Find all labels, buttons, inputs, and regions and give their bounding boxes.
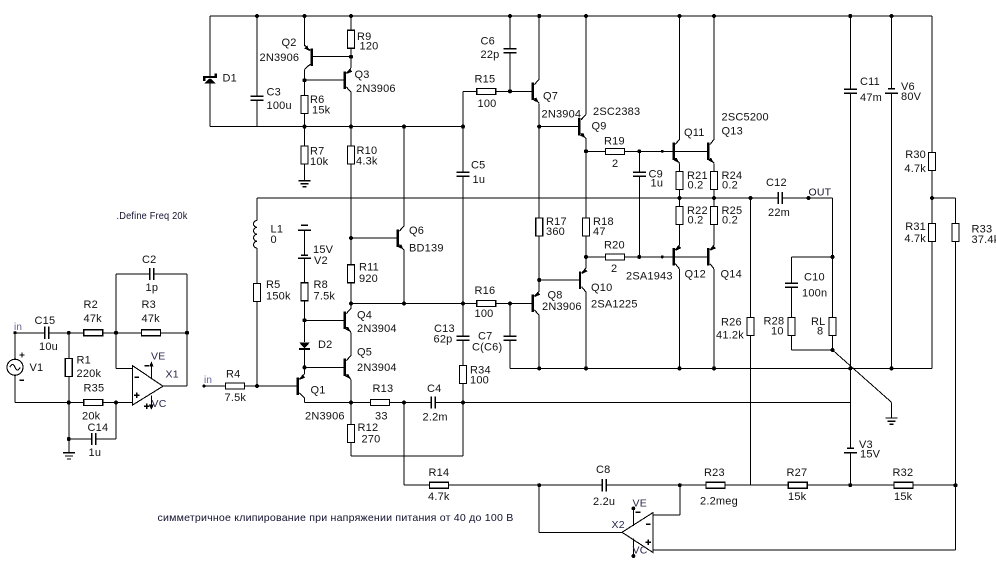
label X2 plus input sign <box>645 540 650 545</box>
node R32 / R33 / X2 plus riser <box>954 483 958 487</box>
resistor R33 <box>955 198 957 224</box>
wire Q3 collector down <box>350 92 352 126</box>
svg-text:0.2: 0.2 <box>688 180 704 192</box>
wire in to C15 <box>15 332 45 334</box>
node Q2 collector / Q3 base / R6 <box>303 78 307 82</box>
wire X2 output <box>539 531 622 533</box>
label X1 minus input sign <box>134 376 139 378</box>
wire R32 to corner <box>913 484 956 486</box>
node V6 / ground rail <box>890 366 894 370</box>
transistor Q9 (2SC2383) <box>578 118 580 136</box>
resistor R25 <box>713 198 715 207</box>
svg-text:D1: D1 <box>223 73 237 85</box>
svg-text:47k: 47k <box>142 313 161 325</box>
svg-text:R4: R4 <box>226 369 240 381</box>
node R30-R31 / R33 <box>930 196 934 200</box>
resistor R23 <box>706 482 725 488</box>
resistor R20 <box>606 254 625 260</box>
resistor R11 <box>348 265 355 283</box>
node R34 / R12 riser <box>461 401 465 405</box>
capacitor C6 <box>509 16 511 49</box>
wire Q1 collector down <box>304 398 306 402</box>
wire diagonal to ground <box>833 350 892 402</box>
svg-text:62p: 62p <box>434 334 453 346</box>
wire C2 right riser <box>186 274 188 333</box>
resistor R24 <box>711 172 718 190</box>
label V1 plus sign <box>19 352 24 357</box>
wire Q11 collector up to top rail <box>679 16 681 139</box>
wire X2 plus input <box>653 549 956 551</box>
svg-text:R26: R26 <box>721 317 742 329</box>
svg-text:симметричное клипирование при: симметричное клипирование при напряжении… <box>158 512 514 524</box>
label X1 VE minus sign <box>144 365 149 367</box>
svg-text:R2: R2 <box>84 299 98 311</box>
capacitor C14 <box>92 433 96 445</box>
node R18 / R20 / Q10 emitter <box>584 255 588 259</box>
svg-text:R31: R31 <box>905 221 926 233</box>
wire in2 to R4 <box>204 385 226 387</box>
svg-text:2SC5200: 2SC5200 <box>722 112 769 124</box>
svg-text:4.3k: 4.3k <box>356 156 378 168</box>
resistor R28 <box>788 317 795 335</box>
resistor R16 <box>463 303 477 305</box>
node Q6 base junction <box>349 236 353 240</box>
node C6 / R15-Q7 wire <box>508 89 512 93</box>
wire X2 output riser <box>538 485 540 532</box>
wire Q6 collector up to rail A <box>403 127 405 226</box>
node rail A / R6-R7 <box>303 125 307 129</box>
svg-text:120: 120 <box>360 41 379 53</box>
svg-text:2.2u: 2.2u <box>593 496 615 508</box>
svg-text:920: 920 <box>359 273 378 285</box>
svg-text:C11: C11 <box>860 76 880 88</box>
svg-text:22p: 22p <box>481 49 500 61</box>
svg-text:VE: VE <box>151 351 165 363</box>
pin X1 VC <box>150 396 152 409</box>
wire X1 minus input <box>115 333 117 369</box>
transistor Q11 <box>672 143 674 161</box>
svg-text:15k: 15k <box>788 491 807 503</box>
node base branch Q12/Q14 <box>661 255 664 258</box>
svg-text:2SA1943: 2SA1943 <box>626 271 673 283</box>
resistor R35 <box>84 400 103 406</box>
wire R20 left lead <box>586 256 606 258</box>
wire R28 to RL bottom <box>792 349 833 351</box>
svg-text:X1: X1 <box>166 369 179 381</box>
svg-text:Q1: Q1 <box>311 385 326 397</box>
op-amp X2 <box>622 513 653 553</box>
transistor Q1 (2N3906) <box>296 377 298 395</box>
svg-text:R15: R15 <box>475 74 496 86</box>
svg-text:15k: 15k <box>312 105 331 117</box>
node wire y303 / Q6 emitter <box>402 302 406 306</box>
svg-text:R12: R12 <box>358 422 379 434</box>
wire C2 left lead <box>116 273 150 275</box>
wire R4 to Q1 base <box>245 385 297 387</box>
wire C15 to R2 <box>49 332 84 334</box>
node C14 left <box>67 437 71 441</box>
wire Q13 collector up to top rail <box>713 16 715 139</box>
wire top supply rail <box>210 15 932 17</box>
resistor R17 <box>538 127 540 218</box>
wire Q4 emitter to Q5 collector <box>350 332 352 355</box>
svg-text:Q9: Q9 <box>592 121 607 133</box>
inductor L1 <box>256 198 258 221</box>
voltage source V2 15V <box>298 225 311 230</box>
svg-text:Q12: Q12 <box>685 269 706 281</box>
label X1 VC plus sign <box>144 404 149 409</box>
svg-text:C3: C3 <box>267 87 281 99</box>
wire Q10 collector down to ground rail <box>585 292 587 368</box>
svg-text:100n: 100n <box>802 288 827 300</box>
wire Q9 emitter down <box>585 139 587 152</box>
transistor Q4 (2N3904) <box>344 312 346 330</box>
wire Q2 emitter riser <box>304 16 306 45</box>
node Q12 collector / ground rail <box>678 366 682 370</box>
wire Q11 emitter to R21 <box>679 163 681 171</box>
transistor Q8 (2N3906) <box>532 294 534 312</box>
svg-text:in: in <box>14 322 22 333</box>
node R8 / Q4 base / D2 <box>303 318 307 322</box>
resistor R8 <box>301 283 308 301</box>
wire R20 to Q12/Q14 bases <box>625 256 708 258</box>
svg-text:15k: 15k <box>894 491 913 503</box>
wire Q12 collector down to ground rail <box>679 269 681 369</box>
wire R12 bottom link <box>351 455 463 457</box>
wire ground rail <box>510 367 932 369</box>
svg-text:.Define Freq 20k: .Define Freq 20k <box>117 210 188 222</box>
svg-text:R11: R11 <box>359 262 379 274</box>
transistor Q14 <box>707 248 709 266</box>
capacitor C12 <box>778 192 782 204</box>
svg-text:100u: 100u <box>267 100 292 112</box>
svg-text:Q14: Q14 <box>721 269 742 281</box>
svg-text:47k: 47k <box>84 313 103 325</box>
wire C14 left riser and ground <box>68 403 70 440</box>
svg-text:R27: R27 <box>787 467 808 479</box>
svg-text:7.5k: 7.5k <box>314 291 336 303</box>
wire C14 left lead <box>69 438 92 440</box>
wire Q5 emitter down <box>350 379 352 402</box>
wire X2 minus input <box>653 514 680 516</box>
node C5 / R16 / C13 branch <box>461 302 465 306</box>
resistor R7 <box>304 127 306 146</box>
wire Q3 emitter up <box>350 57 352 68</box>
svg-text:2N3906: 2N3906 <box>542 301 582 313</box>
wire C4 to feedback riser <box>435 402 850 404</box>
ground below R7 <box>299 181 311 187</box>
wire Q8 emitter up <box>538 280 540 291</box>
voltage source V1 <box>14 333 16 360</box>
wire C8 to R23 <box>606 484 706 486</box>
svg-text:Q11: Q11 <box>684 127 705 139</box>
wire R14 to C8 <box>449 484 603 486</box>
node C9 bottom <box>637 255 641 259</box>
node Q10 collector / ground rail <box>584 366 588 370</box>
wire Q6 emitter node to R16 node <box>351 303 463 305</box>
node V3 / bottom rail <box>848 483 852 487</box>
svg-text:R8: R8 <box>314 279 328 291</box>
wire Q7 collector up to top rail <box>538 16 540 79</box>
node R11 / Q4 collector <box>349 302 353 306</box>
svg-text:R19: R19 <box>604 136 625 148</box>
resistor R1 <box>68 333 70 359</box>
svg-text:BD139: BD139 <box>409 243 444 255</box>
resistor R9 <box>350 16 352 30</box>
wire Q8 base wire from R16 <box>496 303 532 305</box>
svg-text:33: 33 <box>375 411 388 423</box>
wire C12 right corner down <box>832 198 834 257</box>
svg-text:1p: 1p <box>146 282 159 294</box>
resistor R6 <box>304 80 306 95</box>
pin X1 VE <box>150 363 152 379</box>
svg-text:C15: C15 <box>35 315 56 327</box>
svg-text:VE: VE <box>633 498 647 510</box>
svg-text:47m: 47m <box>860 92 882 104</box>
resistor R4 <box>226 383 245 389</box>
wire Q6 emitter down <box>403 250 405 304</box>
svg-text:Q13: Q13 <box>722 126 743 138</box>
capacitor C3 <box>256 16 258 96</box>
wire C10 top link <box>792 256 833 258</box>
node rail A / Q3 collector-R10 <box>349 125 353 129</box>
wire Q3 base <box>305 79 344 81</box>
svg-text:1u: 1u <box>651 178 664 190</box>
wire rail B to Q9 base <box>539 126 578 128</box>
wire Q1 emitter up <box>304 367 306 374</box>
node OUT <box>807 196 811 200</box>
label X2 minus input sign <box>646 523 651 525</box>
resistor R19 <box>606 148 625 154</box>
voltage source V3 15V <box>849 403 851 449</box>
svg-text:C4: C4 <box>427 383 441 395</box>
svg-text:Q3: Q3 <box>355 69 370 81</box>
capacitor C5 <box>462 127 464 173</box>
svg-text:2N3904: 2N3904 <box>357 362 397 374</box>
wire Q13 emitter to R24 <box>713 163 715 171</box>
svg-text:2SC2383: 2SC2383 <box>593 106 640 118</box>
svg-text:0.2: 0.2 <box>722 215 738 227</box>
svg-text:0.2: 0.2 <box>722 180 738 192</box>
resistor RL <box>832 257 834 318</box>
resistor R27 <box>788 482 807 488</box>
svg-text:C12: C12 <box>766 177 787 189</box>
svg-text:Q5: Q5 <box>357 347 372 359</box>
wire V1 to R35 <box>15 402 84 404</box>
svg-text:Q7: Q7 <box>543 91 558 103</box>
resistor R32 <box>894 482 913 488</box>
resistor R31 <box>931 198 933 224</box>
transistor Q10 (2SA1225) <box>579 271 581 289</box>
svg-text:2N3904: 2N3904 <box>542 109 582 121</box>
node R5 / Q1 base wire <box>255 384 259 388</box>
svg-text:1u: 1u <box>89 447 102 459</box>
transistor Q2 (2N3906) <box>310 49 312 67</box>
svg-text:C10: C10 <box>804 272 825 284</box>
svg-text:2N3906: 2N3906 <box>356 83 396 95</box>
svg-text:C2: C2 <box>142 254 156 266</box>
svg-text:C6: C6 <box>481 36 495 48</box>
wire output rail <box>257 197 778 199</box>
svg-text:2.2meg: 2.2meg <box>700 496 738 508</box>
node in2 terminal <box>202 385 205 388</box>
node Q5 emitter / R12 <box>349 401 353 405</box>
wire R23 to R27 <box>726 484 789 486</box>
svg-text:80V: 80V <box>901 91 922 103</box>
resistor R22 <box>679 198 681 207</box>
svg-text:100: 100 <box>478 98 497 110</box>
svg-text:2: 2 <box>611 263 617 275</box>
svg-text:270: 270 <box>362 434 381 446</box>
capacitor C15 <box>45 327 49 339</box>
wire R14 left lead <box>404 484 430 486</box>
capacitor C7 <box>509 304 511 337</box>
wire R27 to R32 <box>807 484 894 486</box>
pin X2 VE <box>632 508 634 526</box>
svg-text:2SA1225: 2SA1225 <box>591 299 638 311</box>
resistor R30 <box>929 153 936 171</box>
wire R3 to output node <box>161 332 188 334</box>
svg-text:R13: R13 <box>373 383 394 395</box>
svg-text:R16: R16 <box>475 285 496 297</box>
svg-text:Q8: Q8 <box>548 290 563 302</box>
capacitor C4 <box>431 396 435 408</box>
node R21-R22 / output rail <box>678 196 682 200</box>
node top rail / C3 <box>255 14 259 18</box>
resistor R14 <box>430 482 449 488</box>
label V1 minus sign <box>20 379 25 381</box>
wire Q4 base <box>305 319 344 321</box>
capacitor C13 <box>462 304 464 337</box>
svg-text:20k: 20k <box>82 411 101 423</box>
node R26 / output rail <box>749 196 753 200</box>
transistor Q6 (BD139) <box>396 229 398 247</box>
wire Q10 base <box>539 279 579 281</box>
node R24-R25 / output rail <box>712 196 716 200</box>
resistor R13 <box>371 400 390 406</box>
svg-text:R14: R14 <box>429 467 450 479</box>
wire R15 left lead and corner <box>463 90 477 92</box>
svg-text:15V: 15V <box>860 449 881 461</box>
transistor Q13 (2SC5200) <box>707 143 709 161</box>
ground below C14 <box>63 453 75 459</box>
svg-text:4.7k: 4.7k <box>428 491 450 503</box>
svg-text:0: 0 <box>271 234 277 246</box>
node Q14 collector / ground rail <box>712 366 716 370</box>
svg-text:2N3906: 2N3906 <box>260 52 300 64</box>
svg-text:10: 10 <box>771 326 784 338</box>
svg-text:37.4k: 37.4k <box>972 234 996 246</box>
wire Q14 collector down to ground rail <box>713 269 715 369</box>
capacitor C2 <box>150 268 154 280</box>
node Q9 emitter / R19 <box>584 149 588 153</box>
wire Q8 collector down to ground rail <box>538 315 540 368</box>
node C4 / R14 riser <box>402 401 406 405</box>
wire C14 right lead <box>96 438 117 440</box>
wire Q7 emitter down <box>538 103 540 126</box>
node C9 top <box>637 149 641 153</box>
node base branch Q11/Q13 <box>661 150 664 153</box>
svg-text:100: 100 <box>470 375 489 387</box>
svg-text:7.5k: 7.5k <box>225 392 247 404</box>
transistor Q12 (2SA1943) <box>672 248 674 266</box>
svg-text:10u: 10u <box>39 341 58 353</box>
svg-text:C14: C14 <box>88 422 109 434</box>
wire R35 to X1 plus input <box>103 402 133 404</box>
svg-text:1u: 1u <box>473 174 486 186</box>
svg-text:4.7k: 4.7k <box>904 163 926 175</box>
wire riser to R34 node <box>462 403 464 456</box>
capacitor C10 <box>791 257 793 283</box>
wire C2 right lead <box>154 273 188 275</box>
label X1 plus input sign <box>134 393 139 398</box>
node C10/RL top junction <box>831 255 835 259</box>
svg-text:D2: D2 <box>318 339 332 351</box>
resistor R21 <box>676 172 683 190</box>
capacitor C11 <box>849 16 851 89</box>
resistor R15 <box>477 88 496 94</box>
svg-text:C5: C5 <box>471 160 485 172</box>
node R35 / C14 riser <box>114 401 118 405</box>
wire X1 output <box>163 385 187 387</box>
node D2 / Q5 base / Q1 emitter <box>303 365 307 369</box>
capacitor C9 <box>638 151 640 172</box>
resistor R34 <box>462 340 464 366</box>
node Q7 emitter / Q9 base rail <box>537 125 541 129</box>
svg-text:2N3906: 2N3906 <box>305 411 345 423</box>
svg-text:100: 100 <box>475 308 494 320</box>
svg-text:R30: R30 <box>905 149 926 161</box>
svg-text:R20: R20 <box>604 240 625 252</box>
transistor Q7 (2N3904) <box>532 83 534 101</box>
node X2 minus riser <box>678 483 682 487</box>
wire X2 plus riser <box>955 485 957 550</box>
wire Q9 collector up to top rail <box>585 16 587 115</box>
svg-text:2N3904: 2N3904 <box>357 323 397 335</box>
capacitor C8 <box>602 479 606 491</box>
svg-text:X2: X2 <box>612 519 625 531</box>
node R17 / Q8 emitter / Q10 base <box>537 278 541 282</box>
transistor Q3 (2N3906) <box>344 71 346 89</box>
svg-text:V2: V2 <box>314 255 328 267</box>
wire C14 right riser <box>115 403 117 440</box>
node rail A / Q6 collector <box>402 125 406 129</box>
wire right supply drop to R30 <box>931 16 933 153</box>
node in terminal <box>13 331 16 334</box>
svg-text:4.7k: 4.7k <box>904 233 926 245</box>
wire C2 left riser <box>115 274 117 333</box>
svg-text:in: in <box>204 375 212 386</box>
wire R33 top link <box>932 197 956 199</box>
resistor R2 <box>84 330 103 336</box>
svg-text:Q6: Q6 <box>409 225 424 237</box>
diode D2 <box>304 320 306 342</box>
svg-text:0.2: 0.2 <box>688 215 704 227</box>
wire Q1 collector to R13 and C4 rail <box>305 402 371 404</box>
svg-text:10k: 10k <box>310 156 329 168</box>
resistor R18 <box>585 151 587 218</box>
svg-text:C8: C8 <box>596 464 610 476</box>
svg-text:VC: VC <box>633 545 648 557</box>
svg-text:C(C6): C(C6) <box>472 342 502 354</box>
pin X2 VC <box>632 539 634 557</box>
svg-text:220k: 220k <box>77 368 102 380</box>
wire rail A (lower rail of input stage) <box>210 126 463 128</box>
node C15 / R1 <box>67 331 71 335</box>
svg-text:V1: V1 <box>30 362 44 374</box>
svg-text:41.2k: 41.2k <box>716 330 744 342</box>
svg-text:Q10: Q10 <box>591 282 612 294</box>
